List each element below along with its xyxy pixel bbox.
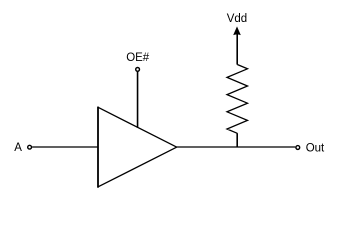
node A	[14, 142, 31, 154]
power Vdd	[227, 13, 247, 65]
node OE#	[126, 52, 150, 71]
wire resistor to output net	[236, 133, 238, 147]
svg-text:A: A	[14, 142, 22, 154]
op-amp U1 buffer triangle	[98, 107, 177, 188]
wire OE# to buffer enable	[137, 72, 139, 128]
svg-text:Vdd: Vdd	[227, 13, 247, 25]
wire buffer output to Out	[177, 146, 296, 148]
resistor R1	[227, 65, 248, 134]
svg-text:Out: Out	[306, 142, 325, 154]
svg-text:OE#: OE#	[126, 52, 150, 64]
node Out	[296, 142, 325, 154]
wire A to buffer input	[32, 146, 97, 148]
